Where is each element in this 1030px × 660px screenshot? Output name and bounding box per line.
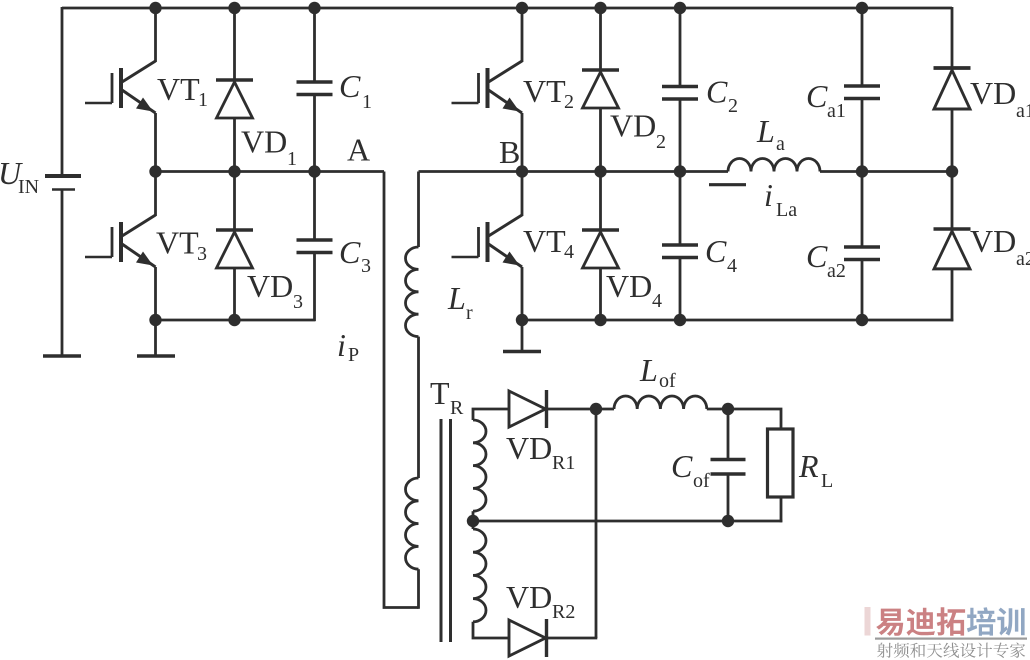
svg-text:R: R bbox=[798, 448, 819, 484]
label L_r bbox=[447, 280, 473, 324]
wire output return row bbox=[473, 520, 782, 523]
wire node B row left bbox=[419, 170, 729, 173]
svg-text:a1: a1 bbox=[1016, 100, 1030, 122]
wire VT2 emitter bbox=[521, 113, 524, 172]
transformer TR secondary upper winding bbox=[473, 420, 486, 511]
junction dots secondary bbox=[467, 403, 734, 527]
capacitor Cof bbox=[711, 460, 746, 475]
svg-text:VT: VT bbox=[157, 71, 200, 107]
svg-text:VD: VD bbox=[241, 124, 287, 160]
watermark faint mark bbox=[865, 607, 871, 636]
svg-text:L: L bbox=[756, 113, 775, 149]
current mark iLa bbox=[709, 183, 746, 186]
label VT3 bbox=[156, 225, 207, 266]
svg-text:r: r bbox=[466, 302, 473, 324]
wire VD4 anode bbox=[599, 268, 602, 320]
svg-text:a2: a2 bbox=[1016, 248, 1030, 270]
wire VDa2 cathode bbox=[951, 172, 954, 230]
label T_R bbox=[430, 375, 464, 419]
ground (right leg) bbox=[503, 350, 541, 354]
inductor La bbox=[728, 159, 820, 172]
wire C2 top bbox=[679, 7, 682, 87]
wire Ca1 bottom bbox=[861, 99, 864, 172]
wire Ca2 bottom bbox=[861, 260, 864, 321]
transformer TR core bbox=[441, 419, 451, 642]
label VD_R2 bbox=[506, 579, 575, 623]
svg-text:a2: a2 bbox=[827, 260, 846, 282]
wire Cof bottom lead bbox=[727, 474, 730, 521]
wire VT2 collector bbox=[521, 7, 524, 62]
wire top rail bbox=[62, 7, 952, 10]
svg-text:VD: VD bbox=[970, 223, 1016, 259]
wire node to Lof bbox=[596, 408, 614, 411]
label i_P bbox=[337, 327, 359, 366]
svg-text:3: 3 bbox=[197, 243, 207, 265]
ground (left leg) bbox=[137, 354, 175, 358]
svg-text:VD: VD bbox=[606, 268, 652, 304]
svg-text:IN: IN bbox=[18, 176, 39, 198]
svg-text:C: C bbox=[806, 78, 828, 114]
svg-text:VT: VT bbox=[523, 73, 566, 109]
diode VDR2 bbox=[509, 619, 547, 657]
wire secondary centre tap link bbox=[472, 511, 475, 529]
svg-text:2: 2 bbox=[656, 131, 666, 153]
junction dots top rail bbox=[149, 2, 868, 14]
capacitor C1 bbox=[297, 82, 333, 95]
wire C3 top bbox=[313, 172, 316, 241]
wire secondary bottom terminal bbox=[473, 622, 509, 638]
wire VDa2 anode bbox=[951, 269, 954, 321]
label VD_a2 bbox=[970, 223, 1030, 270]
inductor Lof bbox=[614, 396, 707, 409]
wire node A row bbox=[156, 170, 385, 173]
diode VDa1 bbox=[934, 68, 971, 109]
svg-text:2: 2 bbox=[728, 95, 738, 117]
transistor VT1 bbox=[85, 61, 156, 113]
svg-text:T: T bbox=[430, 375, 450, 411]
wire A down-branch bbox=[384, 172, 419, 608]
svg-text:VD: VD bbox=[506, 579, 552, 615]
wire RL bottom lead bbox=[780, 497, 783, 522]
wire C2 bottom bbox=[679, 99, 682, 172]
label U_IN bbox=[0, 155, 39, 198]
wire VD3 anode bbox=[233, 268, 236, 320]
transformer TR secondary lower winding bbox=[473, 529, 486, 622]
wire VT3 ground lead bbox=[154, 320, 157, 356]
diode VD1 bbox=[216, 80, 253, 118]
svg-text:1: 1 bbox=[198, 89, 208, 111]
wire C4 top bbox=[679, 172, 682, 246]
wire secondary top terminal bbox=[473, 409, 509, 420]
svg-text:L: L bbox=[447, 280, 466, 316]
label L_a bbox=[756, 113, 785, 155]
wire rectifier junction vertical bbox=[595, 409, 598, 638]
svg-text:a1: a1 bbox=[827, 100, 846, 122]
svg-text:C: C bbox=[706, 74, 728, 110]
svg-text:VT: VT bbox=[156, 225, 199, 261]
svg-text:R1: R1 bbox=[552, 452, 575, 474]
wire C1 bottom bbox=[313, 95, 316, 172]
transistor VT2 bbox=[452, 61, 523, 113]
capacitor Ca1 bbox=[844, 86, 880, 99]
svg-text:C: C bbox=[671, 448, 693, 484]
label C_of bbox=[671, 448, 710, 492]
battery U_IN bbox=[45, 176, 81, 190]
wire VT3 collector bbox=[154, 172, 157, 217]
label C3 bbox=[339, 234, 371, 277]
diode VD4 bbox=[582, 230, 619, 268]
wire VD3 cathode bbox=[233, 172, 236, 231]
svg-text:4: 4 bbox=[652, 290, 662, 312]
label L_of bbox=[639, 352, 676, 392]
label VT1 bbox=[157, 71, 208, 111]
wire left source branch lower bbox=[61, 190, 64, 357]
svg-text:C: C bbox=[705, 233, 727, 269]
wire VD1 anode bbox=[233, 118, 236, 172]
wire VD4 cathode bbox=[599, 172, 602, 231]
capacitor C2 bbox=[662, 87, 698, 100]
svg-text:a: a bbox=[776, 133, 785, 155]
capacitor C4 bbox=[662, 245, 698, 258]
svg-text:C: C bbox=[339, 234, 361, 270]
resistor RL bbox=[768, 429, 794, 497]
wire VT4 emitter bbox=[521, 267, 524, 320]
wire bottom-left row bbox=[156, 319, 316, 322]
svg-text:C: C bbox=[806, 238, 828, 274]
wire VDR2 to junction bbox=[548, 637, 598, 640]
label C4 bbox=[705, 233, 737, 277]
capacitor Ca2 bbox=[844, 247, 880, 260]
svg-text:i: i bbox=[764, 177, 773, 213]
svg-text:4: 4 bbox=[727, 255, 737, 277]
svg-text:C: C bbox=[339, 68, 361, 104]
label VD1 bbox=[241, 124, 297, 171]
label VD2 bbox=[610, 108, 666, 154]
wire VD1 cathode bbox=[233, 7, 236, 80]
label VD_R1 bbox=[506, 430, 575, 474]
wire VT1 collector bbox=[154, 7, 157, 62]
transformer TR primary winding bbox=[406, 478, 419, 569]
transistor VT3 bbox=[85, 215, 156, 267]
label VD4 bbox=[606, 268, 662, 312]
wire VT3 emitter bbox=[154, 267, 157, 320]
wire VD2 anode bbox=[599, 108, 602, 172]
svg-text:VD: VD bbox=[610, 108, 656, 144]
svg-text:of: of bbox=[693, 470, 710, 492]
watermark logo text 易迪拓 bbox=[876, 607, 965, 636]
label C_a1 bbox=[806, 78, 846, 122]
wire B down to Lr bbox=[417, 172, 420, 248]
wire VT4 collector bbox=[521, 172, 524, 217]
wire bottom-right row bbox=[522, 319, 953, 322]
watermark tagline 射频和天线设计专家 bbox=[877, 643, 1025, 659]
wire node B row right bbox=[820, 170, 952, 173]
svg-text:B: B bbox=[499, 134, 520, 170]
label VT2 bbox=[523, 73, 574, 113]
svg-text:i: i bbox=[337, 327, 346, 363]
svg-text:VT: VT bbox=[523, 223, 566, 259]
wire Lr to primary bbox=[417, 337, 420, 478]
label R_L bbox=[798, 448, 833, 492]
svg-text:VD: VD bbox=[506, 430, 552, 466]
wire C3 bottom bbox=[313, 253, 316, 322]
svg-text:L: L bbox=[639, 352, 658, 388]
svg-text:R: R bbox=[450, 397, 464, 419]
wire Ca1 top bbox=[861, 7, 864, 86]
watermark underline bbox=[875, 638, 1027, 640]
svg-text:VD: VD bbox=[970, 75, 1016, 111]
inductor Lr bbox=[405, 247, 418, 337]
diode VD2 bbox=[582, 70, 619, 108]
label VD3 bbox=[247, 268, 303, 313]
capacitor C3 bbox=[297, 240, 333, 253]
ground (battery) bbox=[43, 354, 81, 358]
wire VT1 emitter bbox=[154, 113, 157, 172]
svg-text:VD: VD bbox=[247, 268, 293, 304]
wire VDa1 cathode bbox=[951, 7, 954, 68]
svg-text:2: 2 bbox=[564, 91, 574, 113]
label VT4 bbox=[523, 223, 574, 263]
wire primary bottom bbox=[417, 569, 420, 609]
wire VDR1 to node bbox=[548, 408, 597, 411]
svg-text:3: 3 bbox=[361, 255, 371, 277]
diode VDR1 bbox=[509, 390, 547, 428]
wire Ca2 top bbox=[861, 172, 864, 248]
svg-text:La: La bbox=[776, 199, 797, 221]
watermark logo text 培训 bbox=[967, 607, 1025, 636]
wire VD2 cathode bbox=[599, 7, 602, 70]
junction dots mid row bbox=[149, 165, 958, 177]
wire VDa1 anode bbox=[951, 109, 954, 172]
wire C1 top bbox=[313, 7, 316, 82]
label C2 bbox=[706, 74, 738, 118]
label C1 bbox=[339, 68, 372, 113]
svg-text:P: P bbox=[348, 344, 359, 366]
svg-text:1: 1 bbox=[362, 91, 372, 113]
label C_a2 bbox=[806, 238, 846, 282]
svg-text:L: L bbox=[821, 470, 833, 492]
diode VD3 bbox=[216, 230, 253, 268]
svg-text:A: A bbox=[347, 132, 370, 168]
wire left source branch upper bbox=[61, 7, 64, 175]
wire Lof to RL corner bbox=[707, 409, 781, 429]
junction dots bottom rows bbox=[149, 314, 868, 326]
svg-text:4: 4 bbox=[564, 241, 574, 263]
diode VDa2 bbox=[934, 229, 971, 269]
svg-text:1: 1 bbox=[287, 148, 297, 170]
svg-text:3: 3 bbox=[293, 291, 303, 313]
label i_La bbox=[764, 177, 797, 221]
wire VT4 ground lead bbox=[521, 320, 524, 352]
wire Cof top lead bbox=[727, 409, 730, 460]
svg-text:R2: R2 bbox=[552, 601, 575, 623]
wire C4 bottom bbox=[679, 258, 682, 321]
transistor VT4 bbox=[452, 215, 523, 267]
label VD_a1 bbox=[970, 75, 1030, 122]
svg-text:of: of bbox=[659, 370, 676, 392]
